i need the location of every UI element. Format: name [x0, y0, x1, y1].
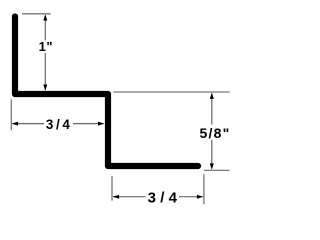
dimension line lower 3/4 right segment — [179, 196, 203, 198]
dimension line lower 3/4 left segment — [113, 196, 146, 198]
dimension line upper 3/4 right segment — [73, 123, 104, 125]
svg-text:3/4: 3/4 — [148, 190, 181, 207]
arrowhead left of lower 3/4 dimension — [113, 195, 119, 199]
svg-text:5/8": 5/8" — [200, 125, 231, 141]
arrowhead up of 5/8 dimension — [210, 93, 214, 99]
arrowhead up of 1 inch dimension — [43, 14, 47, 20]
arrowhead left of upper 3/4 dimension — [12, 122, 18, 126]
extension line top of 1 inch dimension — [22, 13, 51, 15]
arrowhead down of 1 inch dimension — [43, 85, 47, 91]
profile cross-section Z-bar — [15, 17, 198, 167]
extension line bottom of 5/8 dimension — [204, 169, 230, 171]
extension line top of 5/8 dimension — [113, 91, 229, 93]
arrowhead right of upper 3/4 dimension — [98, 122, 104, 126]
arrowhead right of lower 3/4 dimension — [197, 195, 203, 199]
dimension line upper 3/4 left segment — [13, 123, 45, 125]
arrowhead down of 5/8 dimension — [210, 163, 214, 169]
svg-text:1": 1" — [39, 39, 53, 54]
extension line left of lower 3/4 dimension — [111, 176, 113, 201]
dimension line 5/8 upper segment — [211, 94, 213, 125]
dimension line 1 inch lower segment — [44, 53, 46, 90]
dimension line 5/8 lower segment — [211, 140, 213, 169]
extension line right of lower 3/4 dimension — [203, 174, 205, 204]
svg-text:3/4: 3/4 — [46, 117, 73, 132]
extension line left of upper 3/4 dimension — [10, 99, 12, 130]
dimension line 1 inch upper segment — [44, 16, 46, 41]
